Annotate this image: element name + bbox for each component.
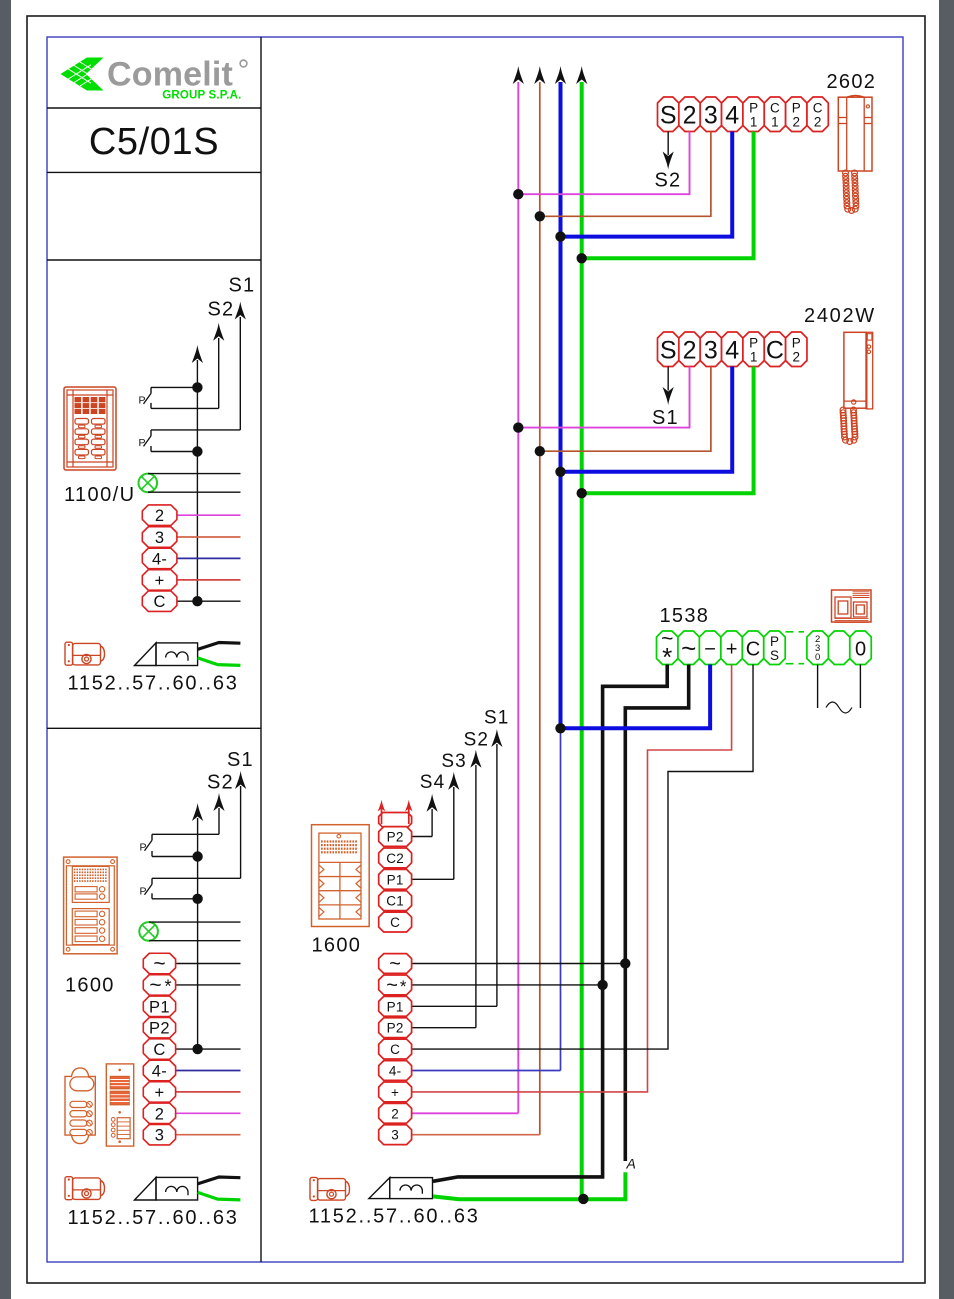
svg-text:C: C [153,1041,165,1059]
svg-text:P: P [749,101,758,116]
svg-text:+: + [154,1084,164,1102]
svg-text:2: 2 [683,337,697,365]
svg-text:1538: 1538 [660,605,710,627]
svg-text:P: P [770,634,779,649]
svg-text:S1: S1 [652,407,679,429]
svg-text:~: ~ [389,953,401,975]
svg-text:3: 3 [155,1127,164,1145]
svg-text:C: C [153,593,165,611]
svg-text:+: + [391,1085,399,1100]
svg-text:GROUP S.P.A.: GROUP S.P.A. [162,90,241,102]
svg-text:2: 2 [793,350,801,365]
svg-text:2: 2 [391,1106,399,1121]
svg-text:4-: 4- [152,550,167,568]
svg-text:+: + [155,572,165,590]
svg-text:1: 1 [750,115,758,130]
svg-text:P2: P2 [387,830,404,845]
svg-text:C: C [766,337,784,365]
svg-text:S: S [660,337,677,365]
svg-text:P1: P1 [387,872,404,887]
svg-text:P: P [140,842,147,854]
svg-text:S2: S2 [464,730,489,751]
svg-text:2: 2 [155,1105,164,1123]
svg-text:−: − [704,639,716,661]
svg-text:C1: C1 [386,894,404,909]
svg-text:4-: 4- [152,1063,167,1081]
svg-text:S2: S2 [207,771,234,793]
svg-text:1152..57..60..63: 1152..57..60..63 [68,1207,239,1229]
svg-text:S1: S1 [229,275,256,297]
svg-text:P2: P2 [149,1020,170,1038]
svg-text:~: ~ [681,633,696,663]
svg-text:S1: S1 [484,708,509,729]
svg-text:C: C [390,1042,400,1057]
svg-text:S2: S2 [655,170,682,192]
svg-text:C: C [813,101,823,116]
svg-text:3: 3 [704,337,718,365]
svg-text:3: 3 [155,529,164,547]
svg-text:~: ~ [153,953,165,976]
svg-text:1100/U: 1100/U [64,484,135,506]
svg-text:2: 2 [155,507,164,525]
svg-text:P: P [749,336,758,351]
svg-text:P1: P1 [387,999,404,1014]
svg-text:P: P [792,336,801,351]
svg-text:P: P [139,437,146,449]
svg-text:C: C [746,639,760,661]
svg-text:C: C [770,101,780,116]
svg-text:C5/01S: C5/01S [89,121,219,163]
svg-text:4-: 4- [389,1064,402,1079]
svg-text:S2: S2 [208,298,235,320]
svg-text:1600: 1600 [312,935,362,957]
svg-text:2: 2 [793,115,801,130]
svg-text:C: C [390,915,400,930]
svg-text:+: + [726,639,738,661]
svg-text:*: * [400,977,407,996]
svg-text:C2: C2 [386,851,404,866]
svg-text:1600: 1600 [65,975,115,997]
svg-text:~: ~ [149,974,161,997]
svg-text:0: 0 [855,639,866,661]
svg-text:3: 3 [391,1128,399,1143]
svg-text:S4: S4 [420,772,445,793]
svg-text:S3: S3 [441,751,466,772]
svg-text:1: 1 [771,115,779,130]
svg-text:P1: P1 [149,998,170,1016]
svg-text:~: ~ [386,974,398,996]
svg-text:Comelit: Comelit [107,56,233,94]
svg-text:2402W: 2402W [804,305,876,327]
svg-text:P2: P2 [387,1021,404,1036]
svg-text:A: A [626,1156,636,1172]
svg-text:*: * [164,976,171,996]
svg-text:2602: 2602 [827,71,877,93]
svg-text:P: P [139,395,146,407]
svg-text:4: 4 [725,102,739,130]
svg-text:P: P [140,886,147,898]
svg-text:S: S [660,102,677,130]
svg-text:2: 2 [814,115,822,130]
svg-text:0: 0 [815,652,820,663]
svg-text:1152..57..60..63: 1152..57..60..63 [68,673,239,695]
svg-text:S: S [770,648,779,663]
svg-text:S1: S1 [227,749,254,771]
svg-text:3: 3 [704,102,718,130]
svg-text:1152..57..60..63: 1152..57..60..63 [309,1206,480,1228]
svg-text:1: 1 [750,350,758,365]
svg-text:4: 4 [725,337,739,365]
svg-text:2: 2 [683,102,697,130]
svg-text:P: P [792,101,801,116]
